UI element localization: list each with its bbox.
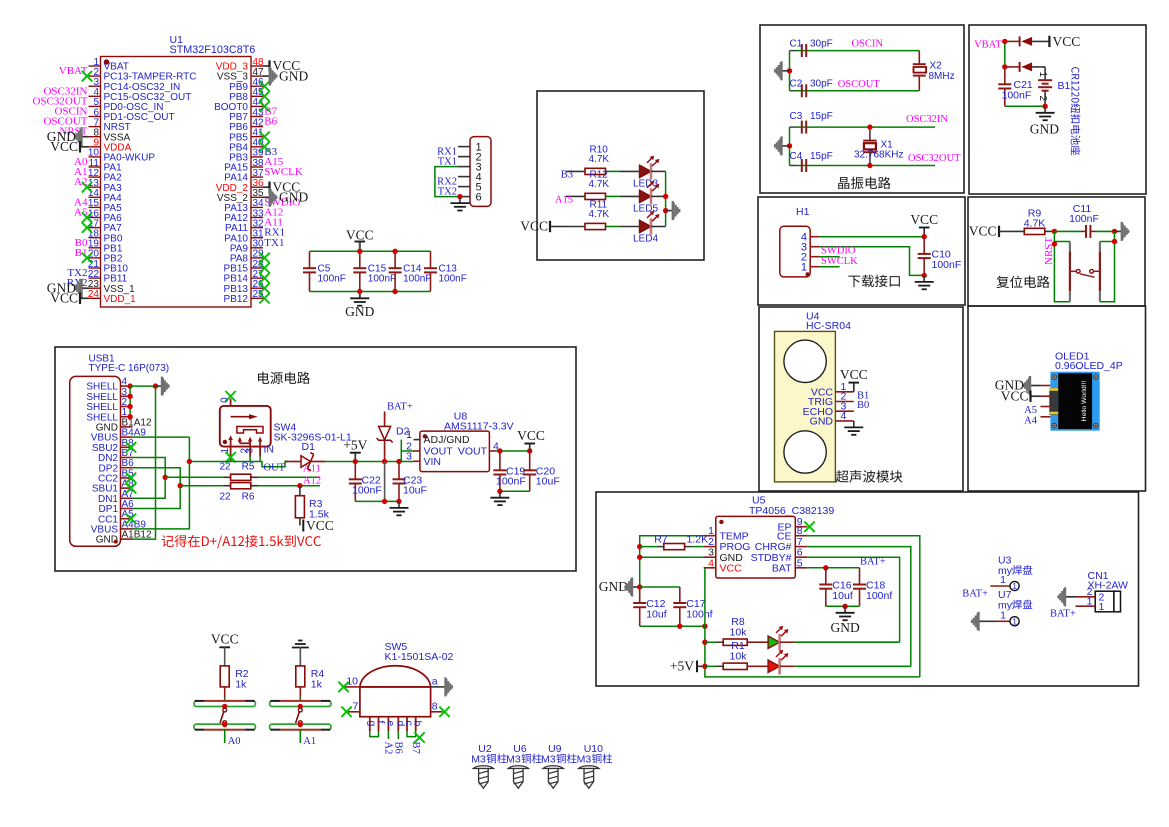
SW5 dome body [360,666,431,687]
SW5 pin 7 [348,711,360,713]
CN1 pin 2 [1076,596,1096,598]
crystal X1 32.768KHz [869,127,871,141]
diode D4 lower (to battery) [1005,66,1020,68]
block frame: battery backup [969,25,1146,194]
no-connect flag U1 pin 27 [259,273,269,283]
power flag VCC output [529,444,531,452]
connector J1 6-pin header [470,137,491,207]
U1 pin 9 VDDA [89,146,101,148]
wire VCC to R9 [999,230,1024,232]
U4 pin 4 GND [835,420,853,422]
U1 pin 17 PA7 [89,227,101,229]
U5 pin 7 CHRG# [795,546,807,548]
junction + ground at crystal left top [787,68,792,73]
wire R2 to key [224,687,226,697]
wire key output [224,730,226,743]
U1 pin 33 PA12 [251,217,263,219]
svg-text:X2: X2 [930,61,943,72]
svg-text:VCC: VCC [50,291,78,306]
svg-text:10k: 10k [730,626,748,638]
block frame: SWD download header [758,197,965,305]
svg-text:100nF: 100nF [932,259,962,271]
U4 pin 1 VCC [835,391,853,393]
svg-text:100nf: 100nf [866,590,892,602]
U1 pin 39 PB3 [251,156,263,158]
no-connect flag U1 pin 2 [82,71,92,81]
wire CE loop [807,536,920,677]
svg-text:32.768KHz: 32.768KHz [854,150,903,161]
resistor R11 4.7K [566,226,585,228]
svg-text:B7: B7 [410,742,421,754]
wire key output [299,730,301,743]
no-connect flag U1 pin 44 [259,101,269,111]
U1 pin 12 PA2 [89,176,101,178]
USB1 pin B8 SBU2 [121,446,133,448]
connector pin 2 [458,156,470,158]
U5 pin 5 BAT [795,567,807,569]
USB1 pin B4A9 VBUS [121,436,133,438]
svg-text:0.96OLED_4P: 0.96OLED_4P [1055,360,1123,372]
wire U8 left feedback [401,450,413,452]
svg-text:+5V: +5V [670,659,694,674]
power flag VCC H1 [923,228,925,237]
push button SW right pole [1099,242,1101,252]
svg-text:+5V: +5V [343,437,367,452]
SW5 jumper c-b [407,731,416,737]
svg-text:100nF: 100nF [403,274,431,285]
svg-text:VCC: VCC [840,367,868,382]
capacitor C15 100nF [359,251,361,268]
LED LED3 [640,165,652,177]
wire DP pair vertical [133,468,181,509]
svg-text:H1: H1 [796,206,810,218]
SW5 jumper g-f [370,731,379,737]
U1 pin 25 PB12 [251,297,263,299]
USB1 corner dot [114,540,118,544]
no-connect flag U1 pin 29 [259,253,269,263]
svg-text:R5: R5 [242,461,255,472]
svg-text:100nF: 100nF [439,274,467,285]
svg-text:D1: D1 [302,441,316,453]
U1 pin 26 PB13 [251,287,263,289]
wire BAT pin [807,567,859,569]
svg-text:M3: M3 [541,754,556,766]
svg-text:100nF: 100nF [1002,90,1032,102]
svg-text:1: 1 [1012,616,1017,626]
svg-text:VCC: VCC [520,219,548,234]
wire R4 to key [299,687,301,697]
power flag VCC U4 [853,383,855,392]
SW4 pin IN [258,437,262,442]
capacitor C3 15pF [790,126,797,128]
svg-text:GND: GND [1030,122,1059,137]
svg-text:B0: B0 [857,400,869,411]
capacitor C11 100nF [1081,230,1086,232]
USB1 pin A7 DN1 [121,497,133,499]
resistor R5 22 [231,474,251,480]
svg-text:4: 4 [841,410,847,422]
wire DN to R5 [165,476,224,478]
U1 pin 11 PA1 [89,166,101,168]
USB1 pin A1B12 GND [121,538,133,540]
U1 pin 40 PB4 [251,146,263,148]
svg-text:GND: GND [279,68,308,83]
junction connector pin6 [457,194,462,199]
junction +5V [353,459,358,464]
U1 pin 23 VSS_1 [89,287,101,289]
USB1 pin A8 SBU1 [121,487,133,489]
no-connect flag USB1 pin B5 [126,473,136,483]
power flag GND OLED [1031,385,1041,387]
SW4 slider bracket [237,427,263,434]
SW4 body dot [223,440,227,444]
no-connect flag USB1 pin A8 [126,483,136,493]
svg-text:C1: C1 [790,38,803,49]
SW5 pin 8 [431,711,443,713]
svg-text:B3: B3 [561,170,573,181]
ground output caps [499,491,501,498]
svg-text:R7: R7 [654,533,668,545]
connector pin 1 [458,146,470,148]
no-connect flag U1 pin 40 [259,142,269,152]
svg-text:VCC: VCC [211,632,239,647]
power flag GND USB shell [156,385,163,387]
svg-text:GND: GND [599,579,628,594]
capacitor C19 100nF [499,451,501,470]
svg-text:C3: C3 [790,111,803,122]
svg-text:VCC: VCC [910,212,938,227]
wire VBAT vertical [1004,41,1006,67]
power flag VCC at U1 pin 24 [80,297,89,299]
U1 pin 10 PA0-WKUP [89,156,101,158]
svg-text:15pF: 15pF [810,151,833,162]
OLED flex connector [1049,388,1058,415]
wire battery GND row [1005,105,1045,107]
wire crystal left vertical [789,51,791,91]
U1 pin 19 PB1 [89,247,101,249]
junction DN tap [163,475,168,480]
svg-text:30pF: 30pF [810,79,833,90]
U1 pin 35 VSS_2 [251,196,263,198]
capacitor C22 100nF [354,462,356,480]
capacitor C2 30pF [790,90,797,92]
U4 transducer top [784,340,826,382]
no-connect flag U1 pin 46 [259,81,269,91]
USB1 pin A5 CC1 [121,518,133,520]
U8 pin 2 VOUT [414,450,420,452]
wire VOUT to VCC [496,450,530,452]
power flag VCC at U1 pin 9 [80,146,89,148]
svg-text:OSCIN: OSCIN [852,39,884,50]
wire R6 to A12 [251,485,258,487]
power flag GND CN1 [1066,596,1076,598]
U1 pin 2 PC13-TAMPER-RTC [89,75,101,77]
power flag GND at U1 pin 23 [82,287,89,289]
svg-text:0: 0 [220,397,231,403]
svg-text:M3: M3 [577,754,592,766]
junction R3 tap on A12 [297,483,302,488]
block title xiazai jiekou [848,276,860,287]
svg-text:100nf: 100nf [686,609,712,621]
power flag GND at U1 pin 47 [263,75,270,77]
wire C11 to GND [1096,230,1115,232]
power flag GND U7 [977,612,979,631]
svg-text:GND: GND [810,416,834,428]
no-connect flag U1 pin 17 [82,222,92,232]
junction PROG tap [637,544,642,549]
OLED pin stub [1041,395,1051,397]
svg-text:VOUT: VOUT [458,446,488,458]
U5 pin 1 TEMP [704,535,716,537]
capacitor C20 10uF [529,451,531,470]
svg-text:A1: A1 [303,736,316,747]
U1 pin 5 PD0-OSC_IN [89,105,101,107]
junction R9 right [1052,229,1057,234]
junction button right [1112,239,1117,244]
junction + ground at crystal2 left [787,143,792,148]
wire USB GND vertical [133,386,156,539]
power flag VCC at U1 pin 48 [263,65,270,67]
power flag GND of LED group [666,210,673,212]
H1 pin 3 [810,246,819,248]
svg-text:10uF: 10uF [403,485,427,497]
svg-text:VCC: VCC [346,227,374,242]
op-amp U1 STM32F103C8T6 microcontroller [101,57,252,308]
USB1 pin B5 CC2 [121,477,133,479]
svg-text:IN: IN [264,444,275,456]
wire charger cap bottom rail [640,625,705,627]
U1 pin 29 PA8 [251,257,263,259]
LED charge green [747,641,768,643]
USB1 pin B6 DP2 [121,467,133,469]
U1 pin 36 VDD_2 [251,186,263,188]
svg-text:BAT+: BAT+ [387,401,413,412]
svg-text:10uF: 10uF [536,476,560,488]
power flag +5V [354,453,356,462]
no-connect flag U5 EP [804,522,814,532]
svg-text:100nF: 100nF [1069,213,1099,225]
junction button left [1052,241,1057,246]
capacitor C14 100nF [394,251,396,268]
svg-text:4.7K: 4.7K [589,209,610,220]
connector pin 4 [458,176,470,178]
svg-text:GND: GND [345,304,374,319]
svg-text:TYPE-C 16P(073): TYPE-C 16P(073) [89,363,170,374]
wire OSCOUT row [796,90,919,92]
switch SW4 SK-3296S-01-L1 [220,406,271,447]
no-connect flag U1 pin 45 [259,91,269,101]
svg-text:BAT+: BAT+ [1050,608,1076,619]
no-connect flag U1 pin 16 [82,212,92,222]
junction dots decoupling bank [357,249,362,254]
wire connector pin3 to pin6 loop [435,167,460,197]
svg-text:10uf: 10uf [646,609,667,621]
svg-text:1: 1 [1000,574,1006,586]
SW5 bottom pin g [369,717,371,731]
wire H1 pin4 to VCC [819,236,924,238]
power flag VCC above decoupling bank [359,242,361,252]
svg-text:Hello World!!!: Hello World!!! [1081,381,1088,422]
svg-text:VCC: VCC [50,139,78,154]
svg-text:VCC: VCC [1001,388,1029,403]
SW5 pin 10 [345,686,360,688]
svg-text:TX1: TX1 [264,237,284,249]
svg-text:XH-2AW: XH-2AW [1088,580,1129,592]
SW5 bottom pin b [415,717,417,731]
SW4 arrow mark [231,416,254,418]
capacitor C10 100nF [923,237,925,254]
U1 pin 41 PB5 [251,136,263,138]
no-connect flag U1 pin 28 [259,263,269,273]
wire H1 pin2 stub [819,256,839,258]
capacitor C17 100nf [679,587,681,603]
SW4 pin 2 [238,437,242,442]
svg-text:10k: 10k [730,651,748,663]
svg-text:NRST: NRST [1043,237,1055,265]
capacitor C18 100nf [859,568,861,585]
junction DP tap [178,483,183,488]
U1 pin 3 PC14-OSC32_IN [89,85,101,87]
svg-text:1: 1 [801,262,807,274]
resistor R12 4.7K [566,195,585,197]
capacitor C12 10uf [639,587,641,603]
no-connect flag USB1 pin A5 [126,514,136,524]
wire D2 to ground rail [384,462,386,502]
H1 pin 4 [810,236,819,238]
block frame: power circuit [55,347,576,571]
U1 pin 48 VDD_3 [251,65,263,67]
U4 transducer bottom [784,431,826,473]
no-connect flag U1 pin 13 [82,182,92,192]
svg-text:OSC32OUT: OSC32OUT [908,153,961,164]
power flag GND at U1 pin 8 [82,136,89,138]
USB1 pin 1 SHELL [121,416,133,418]
svg-text:OUT: OUT [264,462,286,473]
capacitor C23 10uF [396,459,401,464]
resistor R9 4.7K [1024,228,1045,234]
resistor R2 1k [224,647,226,666]
svg-text:22: 22 [219,491,231,502]
svg-text:GND: GND [279,190,308,205]
wire OSC32OUT row [796,165,935,167]
ground battery [1044,106,1046,113]
no-connect flag USB1 pin B8 [126,442,136,452]
push button actuator [1080,274,1095,277]
U5 pin 6 STDBY# [795,556,807,558]
ground below connector [459,197,461,204]
U1 pin 46 PB9 [251,85,263,87]
resistor R1 10k [705,665,717,667]
wire R9 to C11 [1054,230,1081,232]
junction H1 VCC [922,234,927,239]
capacitor C1 30pF [790,50,797,52]
svg-text:4: 4 [708,557,714,569]
USB1 pin A4B9 VBUS [121,528,133,530]
resistor R3 1.5k [299,486,301,496]
resistor R10 4.7K [566,170,585,172]
connector pin 5 [458,186,470,188]
junction charge LED rail [702,640,707,645]
diode D3 top (to VCC) [1005,40,1020,42]
wire SHELL chain [129,386,131,417]
svg-text:BAT: BAT [772,562,792,574]
svg-text:A4: A4 [1024,415,1038,426]
U5 pin 9 EP [795,526,807,528]
U1 pin 6 PD1-OSC_OUT [89,116,101,118]
power flag VCC reset [998,226,1000,237]
U1 pin 31 PA10 [251,237,263,239]
svg-text:1: 1 [406,429,412,441]
wire R11 to LED4 [606,226,621,228]
U1 pin 20 PB2 [89,257,101,259]
svg-text:1k: 1k [235,679,247,691]
SW4 pin 3 [248,437,252,442]
wire TEMP to GND net [640,536,704,587]
key lever [222,704,227,709]
U5 pin 8 CE [795,535,807,537]
connector H1 [780,226,810,277]
capacitor C16 10uf [825,568,827,585]
svg-text:SWCLK: SWCLK [821,256,858,267]
U4 pin 3 ECHO [835,410,853,412]
power flag GND below decoupling bank [359,292,361,298]
svg-text:1: 1 [1037,72,1048,78]
connector pin 3 [458,166,470,168]
resistor R7 1.2K [640,546,658,548]
block frame: OLED display [968,306,1146,491]
svg-text:100nF: 100nF [368,274,396,285]
svg-text:VCC: VCC [1053,34,1081,49]
U1 pin 16 PA6 [89,217,101,219]
wire output cap ground [500,490,530,492]
connector pin 6 [458,196,470,198]
block title chaoshengbo mokuai [836,470,849,482]
SW4 top pin 0 with no-connect [230,399,232,406]
svg-text:1: 1 [1087,596,1093,608]
block frame: reset circuit [968,197,1145,306]
key lever [298,704,303,709]
label CR1220 battery holder (vertical) [1071,67,1081,155]
svg-text:M3: M3 [471,754,486,766]
svg-text:A0: A0 [228,736,241,747]
power flag VCC below R3 [299,518,301,526]
U1 pin 22 PB11 [89,277,101,279]
svg-text:VBAT: VBAT [59,65,88,77]
svg-text:A15: A15 [555,195,573,206]
svg-text:K1-1501SA-02: K1-1501SA-02 [385,651,454,663]
svg-text:ADJ/GND: ADJ/GND [424,434,471,446]
OLED screws [1052,375,1057,380]
wire R10 to LED3 [606,170,621,172]
svg-text:GND: GND [830,620,859,635]
svg-text:30pF: 30pF [810,38,833,49]
svg-text:8: 8 [432,700,438,712]
no-connect flag U1 pin 41 [259,132,269,142]
svg-text:VCC: VCC [306,518,334,533]
U5 pin 3 GND [704,556,716,558]
wire battery cap ground [826,605,860,607]
USB1 pin 3 SHELL [121,395,133,397]
svg-text:1: 1 [1000,609,1006,621]
junction C11 right [1112,229,1117,234]
svg-text:8MHz: 8MHz [929,71,955,82]
SW5 pin a to GND [431,686,445,688]
wire H1 pin3 loop to C10 [819,247,924,276]
svg-text:4.7K: 4.7K [589,154,610,165]
wire USB VBUS vertical [133,436,190,438]
wire VBUS to main rail [189,462,288,467]
U1 pin 21 PB10 [89,267,101,269]
